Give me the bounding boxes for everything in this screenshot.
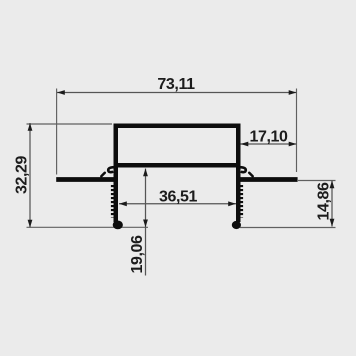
svg-text:17,10: 17,10 — [249, 129, 288, 146]
svg-text:36,51: 36,51 — [159, 189, 198, 206]
svg-text:14,86: 14,86 — [316, 182, 333, 221]
svg-text:32,29: 32,29 — [14, 155, 31, 194]
svg-text:19,06: 19,06 — [129, 235, 146, 274]
svg-text:73,11: 73,11 — [157, 76, 195, 93]
